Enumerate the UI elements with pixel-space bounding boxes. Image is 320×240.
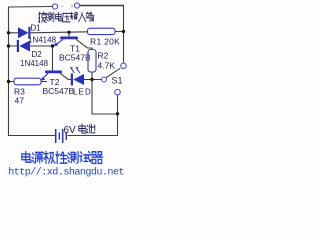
svg-text:47: 47 — [15, 96, 25, 106]
svg-text:R2: R2 — [98, 51, 109, 61]
svg-text:http//:xd.shangdu.net: http//:xd.shangdu.net — [8, 166, 124, 178]
svg-text:LED: LED — [73, 88, 92, 97]
svg-text:1N4148: 1N4148 — [20, 59, 49, 68]
svg-text:D1: D1 — [31, 24, 42, 33]
svg-text:BC547B: BC547B — [59, 53, 91, 63]
svg-text:D2: D2 — [32, 50, 43, 59]
svg-text:S1: S1 — [112, 76, 123, 86]
svg-text:4.7K: 4.7K — [98, 61, 116, 71]
svg-text:BC547B: BC547B — [43, 86, 75, 96]
svg-text:6V: 6V — [64, 125, 77, 136]
svg-text:R1 20K: R1 20K — [90, 37, 120, 47]
svg-text:1N4148: 1N4148 — [28, 36, 57, 45]
